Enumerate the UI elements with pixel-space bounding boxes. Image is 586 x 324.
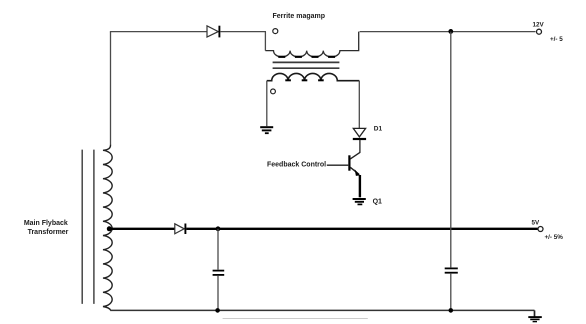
main flyback transformer secondary winding xyxy=(103,145,112,311)
wire: magamp gate winding left lead (vertical) xyxy=(264,32,266,51)
wire: 5V rail (tap to rectifier) xyxy=(109,228,175,230)
wire: top lead to 12V rectifier anode (horizontal) xyxy=(110,31,207,33)
svg-text:Feedback Control: Feedback Control xyxy=(267,161,326,168)
wire: bottom return xyxy=(110,309,534,311)
magamp winding (top, gate winding) xyxy=(265,32,358,57)
svg-text:Main Flyback: Main Flyback xyxy=(24,220,68,227)
node: junction bottom / C2 xyxy=(449,308,454,313)
diode D1 xyxy=(353,128,366,139)
svg-text:12V: 12V xyxy=(533,21,545,28)
svg-text:Transformer: Transformer xyxy=(28,229,69,236)
terminal: 12V output xyxy=(537,29,542,34)
node: junction bottom / C1 xyxy=(215,308,220,313)
faint caption box edge xyxy=(223,318,368,320)
svg-text:Q1: Q1 xyxy=(373,198,382,205)
node: junction 12V rail / filter cap xyxy=(448,29,453,34)
diode 12V rectifier xyxy=(207,26,219,38)
node: secondary tap junction xyxy=(107,226,112,231)
svg-text:D1: D1 xyxy=(374,126,383,133)
wire: rectifier cathode to magamp winding xyxy=(220,31,266,33)
wire: base lead xyxy=(327,164,349,166)
node: magamp winding polarity dot (top) xyxy=(273,29,278,34)
node: junction 5V rail / filter cap C1 xyxy=(216,226,221,231)
ground: Q1 emitter xyxy=(353,199,366,204)
svg-text:+/- 5%: +/- 5% xyxy=(545,234,564,241)
svg-text:+/- 5: +/- 5 xyxy=(550,36,563,43)
node: magamp winding polarity dot (bottom) xyxy=(271,89,276,94)
ground: magamp control winding xyxy=(260,127,273,133)
capacitor C1 xyxy=(213,229,225,311)
wire: 5V rail (rectifier to output) xyxy=(186,228,538,230)
wire: magamp right lead down to D1 xyxy=(358,81,360,128)
main flyback transformer core xyxy=(82,150,94,304)
wire: D1 cathode to Q1 collector xyxy=(359,140,361,153)
wire: 12V rail to output xyxy=(360,31,536,33)
wire: bottom right stub to ground xyxy=(534,310,536,316)
wire: control winding left lead down to ground xyxy=(266,81,268,127)
diode 5V rectifier xyxy=(175,224,186,235)
svg-text:Ferrite magamp: Ferrite magamp xyxy=(273,13,326,20)
ground: bottom return xyxy=(528,317,542,322)
svg-text:5V: 5V xyxy=(532,220,541,227)
terminal: 5V output xyxy=(538,227,543,232)
transistor Q1 xyxy=(349,152,360,197)
wire: flyback secondary top lead (vertical) xyxy=(110,32,112,145)
magamp winding (bottom, control winding) xyxy=(267,73,360,80)
capacitor C2 xyxy=(445,32,458,311)
magamp core xyxy=(273,62,340,68)
